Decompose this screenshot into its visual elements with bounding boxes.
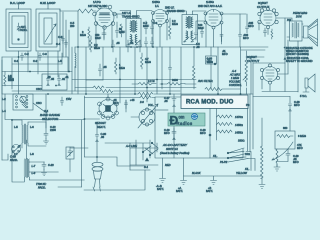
capacitor under V3 left: [195, 21, 206, 40]
svg-text:1458Ω: 1458Ω: [235, 123, 243, 127]
tube V2 1N5G envelope: [153, 10, 168, 25]
resistor volume control R8: [245, 51, 248, 86]
svg-text:TRANS 456KC: TRANS 456KC: [167, 9, 185, 13]
capacitor C-38 box: [206, 56, 217, 64]
svg-text:250: 250: [70, 24, 75, 28]
wires T1 sides: [120, 11, 152, 19]
resistor chain R14: [217, 130, 233, 133]
svg-text:3300: 3300: [172, 78, 178, 82]
svg-text:1ST DET & OSC: 1ST DET & OSC: [88, 4, 107, 8]
power plug P1: [92, 162, 103, 166]
svg-text:PADD.: PADD.: [20, 28, 28, 32]
svg-text:SAFETY TO GROUND: SAFETY TO GROUND: [286, 59, 313, 63]
tube V4 pin circles: [258, 12, 261, 15]
svg-text:.05: .05: [47, 75, 51, 79]
wire verticals mid-left: [18, 51, 20, 94]
resistor RB2 in box: [277, 135, 293, 138]
tube V5 pins: [260, 68, 263, 71]
svg-text:Radios: Radios: [177, 121, 193, 126]
resistor chain R13: [217, 123, 233, 126]
svg-text:(FRONT CHASSIS): (FRONT CHASSIS): [286, 52, 309, 56]
svg-text:MFD: MFD: [200, 131, 206, 135]
coil L4 on vertical: [75, 53, 76, 68]
svg-text:1H5G: 1H5G: [206, 0, 215, 4]
svg-text:L-8: L-8: [30, 152, 34, 156]
capacitor in box a: [47, 75, 50, 86]
wires V3 legs: [206, 24, 222, 47]
resistor R osc grid: [88, 27, 90, 47]
loop antenna L1 outer: [6, 9, 31, 51]
tube V6 rect socket envelope: [99, 100, 117, 118]
svg-text:AVC FILTER: AVC FILTER: [198, 79, 213, 83]
capacitor coupling V4: [246, 14, 249, 33]
logo watermark box: [168, 113, 205, 126]
RCA label box: [181, 95, 248, 109]
capacitor C-30 above plug: [96, 122, 99, 162]
capacitor row small b: [39, 53, 42, 61]
tube V3 internals: [209, 10, 218, 24]
oscillator transformer TB: [24, 159, 25, 177]
capacitor row small a: [21, 53, 24, 61]
wire bus y87.5: [75, 87, 196, 89]
switch cluster SW2: [130, 140, 157, 170]
tube V3 pins: [204, 12, 207, 15]
svg-text:RCA MOD. DUO: RCA MOD. DUO: [186, 99, 234, 105]
svg-text:C-3: C-3: [153, 21, 158, 25]
svg-text:PADD.: PADD.: [38, 186, 46, 190]
svg-text:AC MAX: AC MAX: [229, 73, 240, 77]
ground B: [181, 181, 187, 185]
svg-text:OUTPUT: OUTPUT: [257, 5, 270, 9]
wire verticals det area: [162, 47, 218, 94]
oscillator transformer TA: [22, 125, 23, 143]
svg-text:.05: .05: [51, 77, 55, 81]
capacitor C-28: [289, 97, 292, 132]
wire left vertical x12: [11, 58, 13, 89]
svg-text:.05: .05: [116, 41, 120, 45]
svg-text:.05: .05: [101, 135, 105, 139]
resistor R6 horizontal avc: [160, 83, 196, 86]
svg-text:S.W. LOOP: S.W. LOOP: [40, 1, 56, 5]
svg-text:TRANS 456KC: TRANS 456KC: [122, 15, 140, 19]
svg-text:MFD: MFD: [113, 101, 119, 105]
tube V1 internals: [99, 13, 110, 23]
svg-text:MFD: MFD: [293, 160, 299, 164]
resistor stub under V4: [271, 29, 273, 39]
loop antenna L2 inner rod: [44, 18, 52, 44]
capacitor C22: [44, 122, 48, 139]
capacitor C24 + ground: [42, 162, 46, 170]
speaker S1: [304, 26, 309, 38]
svg-text:A-4: A-4: [231, 69, 237, 73]
tube V4 internals: [264, 14, 272, 23]
ground D: [259, 185, 265, 189]
svg-text:MEG: MEG: [94, 46, 100, 50]
loop antenna L1 mid: [9, 13, 28, 48]
wire loop2 top: [48, 3, 54, 9]
svg-text:om: om: [179, 115, 185, 120]
svg-text:FIL.: FIL.: [245, 167, 250, 171]
capacitor C-36: [169, 66, 172, 73]
T2 windings: [186, 17, 192, 40]
svg-text:BLACK: BLACK: [192, 171, 201, 175]
resistor left 2.5meg: [4, 72, 6, 87]
loop antenna L2 mid: [39, 13, 57, 47]
resistor on y87.5: [93, 86, 104, 89]
wire bus y91: [12, 90, 180, 92]
capacitor C gridleak under V1: [102, 30, 106, 39]
resistor R9 y89: [205, 88, 240, 91]
capacitor C osc: [116, 26, 119, 38]
capacitor pair between T1 V2: [145, 21, 148, 34]
wires bottom distribution: [162, 158, 164, 178]
wire horizontals mid-left: [2, 56, 68, 58]
svg-text:330Ω: 330Ω: [238, 139, 244, 143]
svg-text:SWITCH: SWITCH: [166, 147, 179, 151]
capacitor C7: [139, 40, 142, 52]
svg-text:P3: P3: [246, 103, 250, 107]
svg-text:1A7G: 1A7G: [93, 0, 101, 4]
svg-text:MFD: MFD: [294, 103, 300, 107]
svg-text:L-4: L-4: [2, 109, 6, 113]
output transformer TO box: [290, 21, 303, 41]
svg-text:2ND DET AVC & A.F.: 2ND DET AVC & A.F.: [198, 4, 223, 8]
capacitor under V4: [264, 28, 267, 37]
svg-text:680: 680: [283, 126, 288, 130]
svg-text:OSC: OSC: [36, 101, 42, 105]
svg-text:MFD: MFD: [222, 52, 228, 56]
wires around V6/V7: [85, 94, 148, 119]
svg-text:VOL.: VOL.: [148, 103, 154, 107]
ground G-ta: [44, 139, 49, 145]
svg-text:1ST I.F.: 1ST I.F.: [122, 11, 131, 15]
T1 windings: [131, 21, 137, 43]
wire plug to switch: [85, 157, 146, 166]
node dot L1: [18, 39, 20, 41]
output transformer TO windings: [292, 23, 293, 37]
arrow through V7: [138, 104, 158, 128]
capacitor C5: [112, 40, 115, 52]
ground A: [160, 179, 166, 183]
battery switch box outline: [155, 97, 243, 158]
loop antenna L1 inner: [12, 16, 25, 44]
loop antenna L2 outer: [36, 9, 60, 51]
wire loop terminals right: [63, 12, 69, 72]
svg-text:MFD: MFD: [248, 24, 254, 28]
capacitor CB: [277, 149, 290, 162]
trimmer C23 box: [66, 147, 74, 159]
svg-text:VOLUME: VOLUME: [229, 80, 240, 84]
IF transformer T1 box: [126, 19, 141, 48]
svg-text:MEG: MEG: [172, 22, 178, 26]
arrow in L2: [45, 24, 56, 42]
svg-text:MEG: MEG: [80, 33, 86, 37]
resistor R1 horizontal top left: [78, 9, 96, 13]
svg-text:1458Ω: 1458Ω: [235, 131, 243, 135]
svg-text:P1-P2: P1-P2: [220, 160, 228, 164]
ground C: [211, 181, 217, 185]
svg-text:1 MEG: 1 MEG: [231, 76, 239, 80]
resistor on y91: [100, 90, 113, 93]
svg-text:C-1: C-1: [14, 59, 19, 63]
svg-text:MEG: MEG: [8, 78, 14, 82]
svg-text:L-8: L-8: [32, 171, 36, 175]
wire V3 to V4 top: [222, 13, 246, 15]
wire top bus from V1 to T1: [113, 13, 126, 15]
svg-text:L-7: L-7: [14, 152, 18, 156]
resistor on y94: [138, 93, 153, 96]
svg-text:MMF: MMF: [119, 30, 125, 34]
svg-text:+45: +45: [130, 98, 135, 102]
wire bus bottom horizontal y93: [2, 93, 253, 95]
small speaker S2: [305, 78, 308, 88]
trimmer capacitor in L1: [17, 23, 20, 31]
svg-text:BATT.: BATT.: [157, 187, 164, 191]
svg-text:BATT.: BATT.: [206, 189, 213, 193]
svg-text:MFD: MFD: [243, 36, 249, 40]
component box mid-left: [42, 74, 67, 90]
svg-text:CONTROL: CONTROL: [229, 83, 242, 87]
wire right verticals: [241, 47, 286, 152]
svg-text:C-2: C-2: [25, 52, 30, 56]
svg-text:MEG: MEG: [207, 60, 213, 64]
svg-text:L-2: L-2: [2, 97, 6, 101]
tube V2 internals: [156, 14, 164, 22]
svg-text:MFD: MFD: [164, 131, 170, 135]
wire left verticals bottom: [82, 96, 85, 187]
svg-text:L-5: L-5: [14, 125, 18, 129]
svg-text:5 V.C.: 5 V.C.: [300, 94, 307, 98]
svg-text:2ND I.F.: 2ND I.F.: [165, 6, 175, 10]
wire V1 down legs: [96, 24, 112, 47]
tube V2 pins: [152, 12, 155, 15]
T2 arrows: [184, 37, 197, 42]
svg-text:.05: .05: [164, 99, 168, 103]
band selector switch SW1: [13, 94, 33, 110]
wire bottom left L hook: [2, 154, 70, 172]
svg-text:.01: .01: [130, 41, 134, 45]
wires TA: [12, 120, 46, 148]
svg-text:6 MEG: 6 MEG: [298, 134, 306, 138]
svg-text:C-2: C-2: [33, 59, 38, 63]
svg-text:.01: .01: [65, 75, 69, 79]
svg-text:A-C LINE: A-C LINE: [125, 144, 137, 148]
rotary switch SW3: [12, 145, 21, 154]
wire C22 feed: [5, 94, 85, 128]
svg-text:L-7: L-7: [32, 164, 36, 168]
resistor chain R12: [217, 115, 233, 118]
capacitor loop term: [62, 36, 65, 44]
capacitor pair row2: [145, 37, 148, 47]
V6 pins: [98, 102, 102, 106]
svg-text:C-3: C-3: [43, 52, 48, 56]
svg-text:SELECTOR: SELECTOR: [42, 117, 59, 121]
svg-text:OUTPUT: OUTPUT: [247, 59, 260, 63]
capacitor C45: [239, 33, 242, 41]
ground E: [274, 165, 280, 172]
svg-text:10Ω: 10Ω: [245, 152, 250, 156]
svg-text:OSC: OSC: [36, 87, 42, 91]
capacitor C6: [127, 40, 130, 52]
wire x240 vertical: [239, 14, 241, 47]
svg-text:.05: .05: [103, 65, 107, 69]
capacitor near V6 top: [125, 100, 128, 109]
svg-text:MMF: MMF: [95, 36, 101, 40]
svg-text:C-6: C-6: [58, 35, 63, 39]
svg-text:L-5: L-5: [58, 59, 62, 63]
IF transformer T2 box: [182, 15, 198, 45]
small tube V8 top of band area: [20, 96, 26, 102]
capacitor C37 under rca box: [172, 94, 176, 113]
resistor R7 vertical: [193, 66, 196, 80]
wires V4: [259, 18, 285, 35]
svg-text:MEG: MEG: [145, 60, 151, 64]
wire bus y97.5: [85, 97, 156, 99]
svg-text:PADD.: PADD.: [10, 158, 18, 162]
resistor R3 vertical: [141, 53, 144, 69]
wire loop1 top to grid: [19, 3, 25, 9]
resistor R2 vertical: [90, 36, 93, 52]
tube V7 socket envelope: [139, 109, 155, 125]
svg-text:1½V: 1½V: [66, 97, 72, 101]
component cluster left mid: [61, 97, 64, 106]
resistor R4 vertical: [115, 58, 118, 74]
wires TB: [12, 120, 27, 182]
svg-text:PERM MAG: PERM MAG: [293, 11, 307, 15]
tube V4 3Q5GT envelope: [260, 10, 276, 26]
wires T2 sides: [170, 11, 206, 15]
svg-text:.05: .05: [196, 45, 200, 49]
svg-text:2-6: 2-6: [139, 100, 144, 104]
svg-text:BATT.: BATT.: [176, 189, 183, 193]
tube V1 1A7G envelope: [95, 8, 114, 27]
resistor R osc vertical: [120, 24, 123, 37]
svg-text:DYN: DYN: [296, 15, 302, 19]
svg-text:7700 KC: 7700 KC: [36, 182, 46, 186]
resistor RB3 below box: [276, 149, 278, 167]
svg-text:MMF: MMF: [198, 26, 204, 30]
resistor on y97.5: [140, 96, 151, 99]
wires from contacts right: [246, 152, 255, 171]
svg-text:1470Ω: 1470Ω: [235, 115, 243, 119]
svg-text:B.C. LOOP: B.C. LOOP: [10, 1, 25, 5]
wires V5: [262, 74, 288, 91]
svg-text:RECT.: RECT.: [97, 125, 106, 129]
wire bus y79.5: [72, 79, 196, 81]
svg-text:FIL.: FIL.: [213, 154, 218, 158]
wiper curve: [272, 142, 293, 160]
svg-text:C-4: C-4: [56, 42, 61, 46]
svg-text:2200: 2200: [50, 128, 56, 132]
svg-text:I.F.: I.F.: [155, 4, 159, 8]
tube V5 3Q5GT envelope: [263, 67, 278, 82]
svg-text:MEG: MEG: [119, 66, 125, 70]
capacitor on V3 right leg: [220, 35, 223, 42]
bottom right resistor RB1: [261, 146, 264, 179]
capacitor C19 mid: [172, 128, 176, 140]
wires mid verticals: [86, 47, 157, 94]
svg-text:2.2 M: 2.2 M: [148, 79, 155, 83]
capacitor V3 left2: [201, 28, 204, 38]
svg-text:L-6: L-6: [30, 125, 34, 129]
svg-text:MMF: MMF: [143, 24, 149, 28]
wire left vertical x2: [1, 60, 3, 160]
T1 arrows: [128, 40, 141, 45]
svg-text:(Used in Battery Position): (Used in Battery Position): [160, 151, 190, 155]
wires V2 legs: [153, 22, 167, 47]
wire V5 to speaker line: [262, 91, 298, 93]
capacitor C8: [99, 64, 102, 76]
svg-text:RED: RED: [165, 163, 171, 167]
box network BR: [275, 131, 295, 149]
switch contacts P1 P2: [228, 148, 244, 153]
resistor R screen vertical: [169, 26, 172, 39]
resistor R5 horizontal: [132, 83, 156, 86]
switch delta marker: [145, 158, 148, 161]
svg-text:C-23: C-23: [48, 163, 54, 167]
tube V5 internals: [266, 70, 274, 79]
tube V1 pins: [98, 5, 102, 9]
tube V3 1H5G envelope: [205, 10, 222, 27]
svg-text:YELLOW: YELLOW: [236, 171, 247, 175]
svg-text:MFD: MFD: [297, 146, 303, 150]
svg-text:S-1: S-1: [144, 165, 149, 169]
capacitor in box b: [58, 75, 61, 86]
wire from loops to V1: [60, 10, 78, 12]
